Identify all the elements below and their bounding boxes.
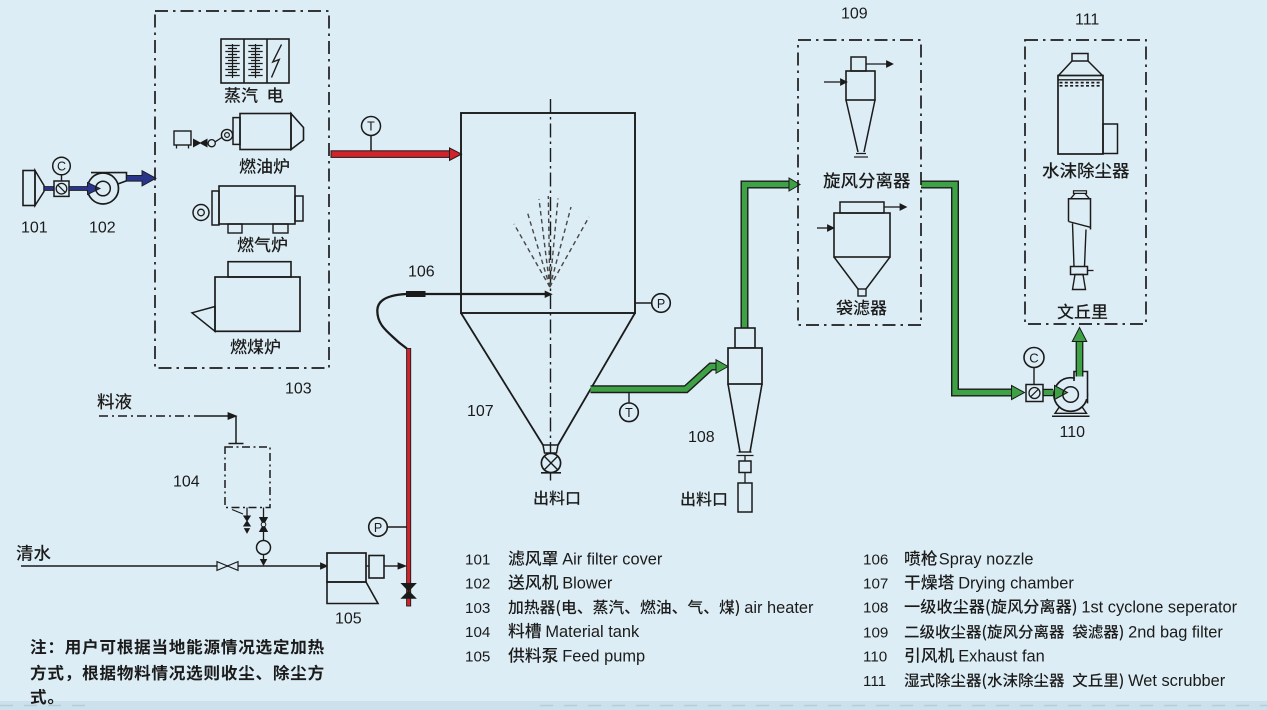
svg-text:Air filter cover: Air filter cover	[562, 551, 663, 569]
svg-text:110: 110	[1060, 424, 1086, 441]
svg-text:Wet scrubber: Wet scrubber	[1128, 672, 1226, 690]
svg-text:101: 101	[465, 552, 490, 569]
svg-text:2nd bag filter: 2nd bag filter	[1128, 624, 1223, 642]
svg-text:111: 111	[863, 673, 886, 690]
svg-text:Feed pump: Feed pump	[562, 648, 645, 666]
svg-text:1st cyclone seperator: 1st cyclone seperator	[1081, 599, 1237, 617]
svg-text:102: 102	[89, 220, 116, 237]
svg-text:110: 110	[863, 649, 887, 666]
svg-text:air heater: air heater	[744, 599, 814, 617]
svg-text:105: 105	[335, 611, 362, 628]
svg-text:106: 106	[408, 264, 435, 281]
svg-text:Blower: Blower	[562, 575, 613, 593]
svg-text:P: P	[374, 521, 382, 535]
svg-text:106: 106	[863, 552, 888, 569]
svg-text:P: P	[657, 297, 665, 311]
svg-text:Spray nozzle: Spray nozzle	[939, 551, 1034, 569]
svg-text:T: T	[367, 120, 375, 134]
svg-text:Exhaust fan: Exhaust fan	[958, 648, 1045, 666]
svg-text:107: 107	[467, 403, 494, 420]
svg-text:111: 111	[1075, 12, 1099, 29]
svg-text:109: 109	[863, 625, 888, 642]
svg-text:105: 105	[465, 649, 490, 666]
svg-text:C: C	[1029, 351, 1038, 366]
svg-text:107: 107	[863, 576, 888, 593]
svg-text:103: 103	[285, 381, 312, 398]
svg-text:108: 108	[688, 429, 715, 446]
svg-text:104: 104	[173, 474, 200, 491]
svg-text:101: 101	[21, 220, 48, 237]
svg-text:Drying chamber: Drying chamber	[958, 575, 1074, 593]
svg-text:T: T	[625, 406, 633, 420]
svg-text:Material tank: Material tank	[545, 623, 640, 641]
svg-text:109: 109	[841, 6, 868, 23]
svg-text:103: 103	[465, 600, 490, 617]
svg-text:102: 102	[465, 576, 490, 593]
svg-text:104: 104	[465, 624, 490, 641]
svg-text:C: C	[57, 160, 66, 174]
svg-text:108: 108	[863, 600, 888, 617]
